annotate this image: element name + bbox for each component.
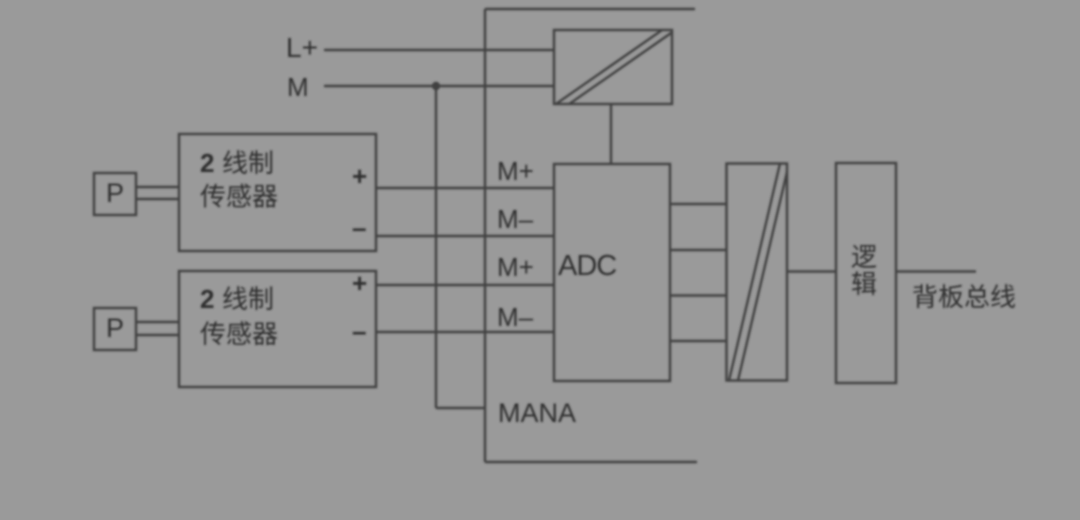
label backplane bus bbox=[913, 284, 1015, 308]
wire M bbox=[324, 85, 554, 87]
svg-text:L+: L+ bbox=[286, 32, 318, 63]
P box 1 bbox=[94, 173, 136, 215]
svg-text:2: 2 bbox=[200, 148, 214, 178]
wire ADC to isolation 3 bbox=[670, 294, 727, 296]
sensor box 2 bbox=[179, 271, 376, 387]
svg-text:M+: M+ bbox=[497, 252, 534, 282]
svg-text:M+: M+ bbox=[497, 156, 534, 186]
wire M+ channel 2 bbox=[376, 284, 554, 286]
svg-text:+: + bbox=[352, 161, 367, 191]
wire isolation to logic bbox=[787, 270, 836, 272]
module frame top line bbox=[485, 8, 695, 10]
wire converter to ADC bbox=[610, 104, 612, 164]
svg-text:–: – bbox=[352, 213, 366, 243]
wire MANA bbox=[436, 407, 485, 409]
isolation barrier box bbox=[727, 164, 788, 381]
node M junction bbox=[432, 82, 440, 90]
power converter box bbox=[554, 30, 672, 104]
svg-text:+: + bbox=[352, 268, 367, 298]
module frame bottom line bbox=[485, 461, 697, 463]
wire P1 upper bbox=[136, 186, 179, 188]
wire P2 lower bbox=[136, 334, 179, 336]
wire P2 upper bbox=[136, 321, 179, 323]
svg-text:M: M bbox=[287, 72, 309, 102]
wire M+ channel 1 bbox=[376, 187, 554, 189]
wire logic to backplane bus bbox=[896, 270, 976, 272]
logic box bbox=[836, 163, 896, 383]
wire P1 lower bbox=[136, 198, 179, 200]
wire ADC to isolation 1 bbox=[670, 203, 727, 205]
svg-text:ADC: ADC bbox=[558, 250, 616, 282]
label logic (vertical text) bbox=[852, 245, 877, 295]
P box 2 bbox=[94, 308, 136, 350]
wire ADC to isolation 2 bbox=[670, 249, 727, 251]
power converter diagonal bbox=[553, 28, 674, 109]
wire M vertical bbox=[435, 86, 437, 408]
svg-text:P: P bbox=[106, 178, 124, 208]
isolation barrier diagonal bbox=[727, 155, 791, 389]
svg-text:M–: M– bbox=[497, 302, 534, 332]
svg-text:M–: M– bbox=[497, 204, 534, 234]
wire M- channel 2 bbox=[376, 331, 554, 333]
svg-text:MANA: MANA bbox=[498, 398, 576, 428]
svg-text:2: 2 bbox=[200, 284, 214, 314]
wire M- channel 1 bbox=[376, 235, 554, 237]
svg-text:P: P bbox=[106, 313, 124, 343]
module frame left boundary bbox=[484, 9, 486, 462]
sensor box 1 bbox=[179, 134, 376, 251]
wire ADC to isolation 4 bbox=[670, 340, 727, 342]
svg-text:–: – bbox=[352, 316, 366, 346]
ADC U1 box bbox=[554, 164, 670, 381]
wire L+ bbox=[324, 49, 554, 51]
